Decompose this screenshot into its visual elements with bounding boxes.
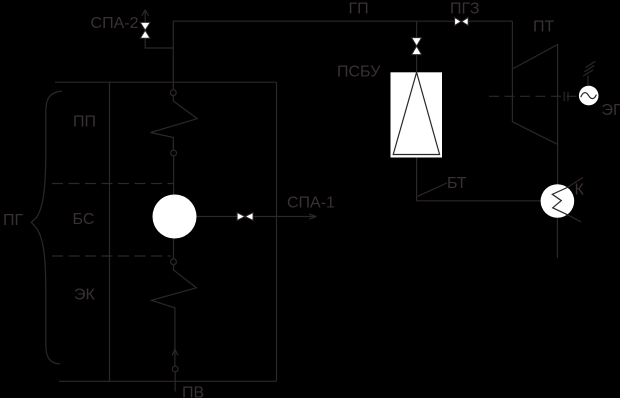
generator EG circle bbox=[579, 86, 599, 106]
boiler inner divider bbox=[109, 82, 111, 381]
condenser K circle bbox=[541, 184, 575, 218]
boiler zone dashed line 1 bbox=[52, 183, 173, 185]
svg-text:ПТ: ПТ bbox=[533, 19, 555, 36]
svg-text:БС: БС bbox=[73, 211, 95, 228]
SPA-2 arrow shaft bbox=[144, 11, 146, 23]
SPA-2 arrowhead bbox=[142, 10, 149, 16]
svg-text:ПВ: ПВ bbox=[182, 385, 204, 398]
wire PSBU branch bbox=[416, 21, 418, 37]
drum BS bbox=[153, 195, 197, 239]
svg-text:ГП: ГП bbox=[349, 0, 369, 17]
valve PGZ bbox=[455, 17, 469, 25]
generator brush stem bbox=[587, 76, 589, 86]
brace PG bbox=[31, 91, 62, 364]
boiler box top edge bbox=[55, 81, 277, 83]
wire coil to drum bbox=[173, 156, 175, 195]
generator brush slashes bbox=[583, 61, 595, 76]
wire PSBU valve to box bbox=[416, 55, 418, 73]
turbine PT trapezoid bbox=[512, 45, 557, 145]
wire BT pipe bbox=[417, 158, 541, 201]
svg-text:ПП: ПП bbox=[73, 114, 96, 131]
svg-text:К: К bbox=[575, 182, 585, 199]
wire turbine inlet bbox=[511, 21, 513, 69]
PSBU box bbox=[391, 72, 443, 157]
coupling ticks bbox=[564, 92, 568, 101]
feedwater circle bbox=[172, 366, 178, 372]
wire SPA-1 line bbox=[197, 216, 315, 218]
wire main steam line GP bbox=[173, 21, 512, 89]
svg-text:ЭГ: ЭГ bbox=[602, 102, 620, 119]
superheater coil circle top bbox=[170, 90, 176, 96]
svg-text:СПА-2: СПА-2 bbox=[91, 15, 139, 32]
wire condensate bbox=[556, 218, 558, 258]
valve PSBU bbox=[412, 38, 422, 55]
shaft dashed line bbox=[489, 95, 579, 97]
wire SPA-2 branch bbox=[145, 38, 173, 48]
economizer coil bbox=[152, 265, 197, 366]
valve SPA-2 bbox=[140, 22, 150, 38]
PSBU triangle bbox=[393, 72, 439, 154]
svg-text:ПГЗ: ПГЗ bbox=[450, 1, 479, 18]
svg-text:ПГ: ПГ bbox=[3, 212, 24, 229]
superheater coil bbox=[151, 96, 198, 151]
boiler zone dashed line 2 bbox=[52, 255, 171, 257]
boiler box right edge bbox=[276, 82, 278, 381]
generator sine bbox=[581, 93, 597, 99]
feedwater arrow bbox=[172, 349, 178, 355]
svg-text:БТ: БТ bbox=[447, 175, 467, 192]
superheater coil circle bottom bbox=[171, 150, 177, 156]
svg-text:ЭК: ЭК bbox=[74, 287, 96, 304]
wire feedwater inlet PV bbox=[174, 372, 176, 392]
BT leader line bbox=[418, 183, 447, 196]
wire turbine exhaust bbox=[557, 144, 559, 184]
wire drum to economizer bbox=[173, 239, 175, 259]
economizer circle top bbox=[171, 259, 177, 265]
boiler box bottom edge bbox=[59, 380, 277, 382]
condenser cooling water zigzag bbox=[552, 178, 583, 222]
SPA-1 arrowhead bbox=[309, 214, 316, 219]
svg-text:СПА-1: СПА-1 bbox=[287, 195, 335, 212]
valve SPA-1 bbox=[237, 213, 253, 221]
svg-text:ПСБУ: ПСБУ bbox=[337, 64, 381, 81]
